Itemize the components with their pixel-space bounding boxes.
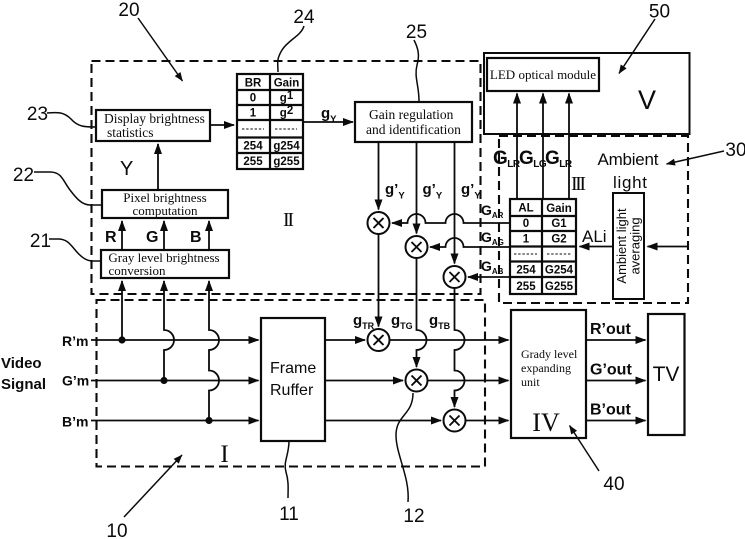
wire GLR2 AL table up to LED module [568,94,570,200]
wire R conversion to computation [121,221,123,250]
wire from G'm node up to conversion with hop [164,281,174,381]
wire AL table row GAB to X3 [468,276,510,278]
svg-text:G254: G254 [545,265,574,277]
svg-text:25: 25 [406,22,427,43]
wire B'out grady to TV [586,420,646,422]
wire G'out grady to TV [586,380,646,382]
wire GLG AL table up to LED module [542,94,544,200]
wire display to BR table [210,124,234,126]
svg-text:averaging: averaging [628,217,643,274]
block: LED optical module [487,58,599,91]
svg-text:B’m: B’m [62,414,88,430]
svg-text:R: R [105,229,117,246]
leader 10 [124,455,182,517]
svg-text:30: 30 [725,140,745,161]
wire X1 down to XR [378,234,380,327]
wire from R'm node up to conversion [121,281,123,340]
svg-text:I: I [220,441,228,468]
wire X3 down to XB with two hops [455,288,465,407]
multiplier X1 [368,212,390,234]
junction node R'm [118,336,125,343]
wire AL table row GAR to X1 with two hops [392,214,510,223]
svg-text:Gain: Gain [274,78,300,90]
wire GLR AL table up to LED module [516,94,518,200]
wire pixel computation up to display statistics Y [157,144,159,190]
svg-text:G1: G1 [551,218,567,230]
wire XB to grady level unit [466,420,509,422]
dashed region II [92,61,481,294]
wire gain regulation to multiplier X1 [378,142,380,210]
svg-text:1: 1 [250,108,257,120]
block: gray level brightness conversion [101,250,229,278]
svg-text:Frame: Frame [270,360,316,377]
wire R'm input to frame buffer [91,339,259,341]
svg-text:254: 254 [243,141,263,153]
svg-text:V: V [638,85,656,115]
svg-text:conversion: conversion [108,263,166,278]
svg-text:Ambient: Ambient [598,150,659,169]
svg-text:255: 255 [516,281,536,293]
svg-text:statistics: statistics [107,125,154,140]
svg-text:unit: unit [521,375,540,389]
wire frame buffer to XG [325,380,403,382]
svg-text:G255: G255 [545,281,574,293]
leader 21 [49,239,101,261]
svg-text:R’m: R’m [62,333,88,349]
junction node G'm [160,377,167,384]
multiplier XG [406,370,428,392]
wire ambient input to averaging [648,246,689,248]
leader 12 [396,393,413,502]
wire G'm input to frame buffer [91,380,259,382]
wire frame buffer to XB [325,420,441,422]
svg-text:AL: AL [518,203,533,215]
leader 11 [285,441,289,498]
block: pixel brightness computation [102,190,228,218]
svg-text:g255: g255 [273,156,300,168]
svg-text:Display brightness: Display brightness [104,111,205,126]
svg-text:III: III [571,173,586,195]
svg-text:21: 21 [30,231,51,252]
svg-text:G’m: G’m [62,373,89,389]
svg-text:40: 40 [603,474,624,495]
svg-text:Gain: Gain [546,203,572,215]
multiplier XR [368,329,390,351]
wire frame buffer to XR [325,339,365,341]
svg-text:12: 12 [403,506,424,527]
svg-text:20: 20 [118,0,139,21]
svg-text:B: B [190,229,202,246]
leader 24 [278,26,304,72]
table AL gain [510,199,576,294]
svg-text:II: II [283,209,294,231]
wire G conversion to computation [163,221,165,250]
svg-text:LED optical module: LED optical module [490,67,596,82]
block: TV [648,314,685,435]
leader 22 [34,172,102,205]
svg-text:BR: BR [245,78,262,90]
svg-text:24: 24 [293,7,315,28]
svg-text:10: 10 [106,521,127,539]
svg-text:0: 0 [523,218,529,230]
multiplier X2 [406,236,428,258]
svg-text:B’out: B’out [590,402,632,419]
svg-text:Gain regulation: Gain regulation [369,107,454,122]
svg-text:IV: IV [532,408,560,437]
block: display brightness statistics [96,110,210,141]
svg-text:expanding: expanding [521,361,571,375]
svg-text:g254: g254 [273,141,300,153]
wire gain regulation to multiplier X2 [416,142,418,234]
svg-text:R’out: R’out [590,321,632,338]
svg-text:G’out: G’out [590,362,632,379]
wire XR to grady level unit [390,339,509,341]
wire XG to grady level unit [428,380,509,382]
svg-text:23: 23 [27,104,48,125]
svg-text:254: 254 [516,265,536,277]
wire X2 down to XG with hop [417,258,427,367]
leader 23 [47,113,96,127]
svg-text:0: 0 [250,93,256,105]
wire from B'm node up to conversion with two hops [209,281,219,421]
svg-text:ALi: ALi [582,227,607,246]
svg-text:TV: TV [653,363,680,386]
svg-text:computation: computation [133,203,198,218]
leader 25 [414,40,419,101]
svg-text:50: 50 [649,2,670,23]
dashed region III [499,136,688,303]
svg-text:Ruffer: Ruffer [270,382,314,399]
svg-text:G2: G2 [551,234,566,246]
wire BR table to gain regulation gY [303,121,353,123]
leader 40 [570,426,600,472]
block: ambient light averaging [613,193,644,299]
junction node B'm [205,417,212,424]
svg-text:22: 22 [13,165,34,186]
table BR gain 24 [237,74,303,169]
wire B conversion to computation [208,221,210,250]
leader 30 [667,151,725,164]
wire B'm input to frame buffer [91,420,259,422]
leader 50 [619,19,655,74]
multiplier X3 [444,266,466,288]
svg-text:and identification: and identification [366,122,461,137]
svg-text:Video: Video [1,355,42,372]
wire R'out grady to TV [586,339,646,341]
block: grady level expanding unit IV [511,310,586,438]
svg-text:light: light [613,173,647,192]
svg-text:255: 255 [243,156,263,168]
wire gain regulation to multiplier X3 [454,142,456,264]
wire AL table row GAG to X2 with hop [430,238,510,247]
svg-text:Grady level: Grady level [521,347,578,361]
block: frame buffer 11 [261,318,325,441]
leader 20 [138,18,183,81]
svg-text:11: 11 [279,504,299,525]
region V box [484,53,690,134]
block: gain regulation and identification U25 [355,102,472,142]
wire ALi averaging to AL table [580,246,614,248]
multiplier XB [444,410,466,432]
svg-text:G: G [146,229,158,246]
svg-text:Y: Y [120,158,133,180]
svg-text:1: 1 [523,234,530,246]
svg-text:Signal: Signal [1,376,46,393]
dashed region I [97,300,486,467]
